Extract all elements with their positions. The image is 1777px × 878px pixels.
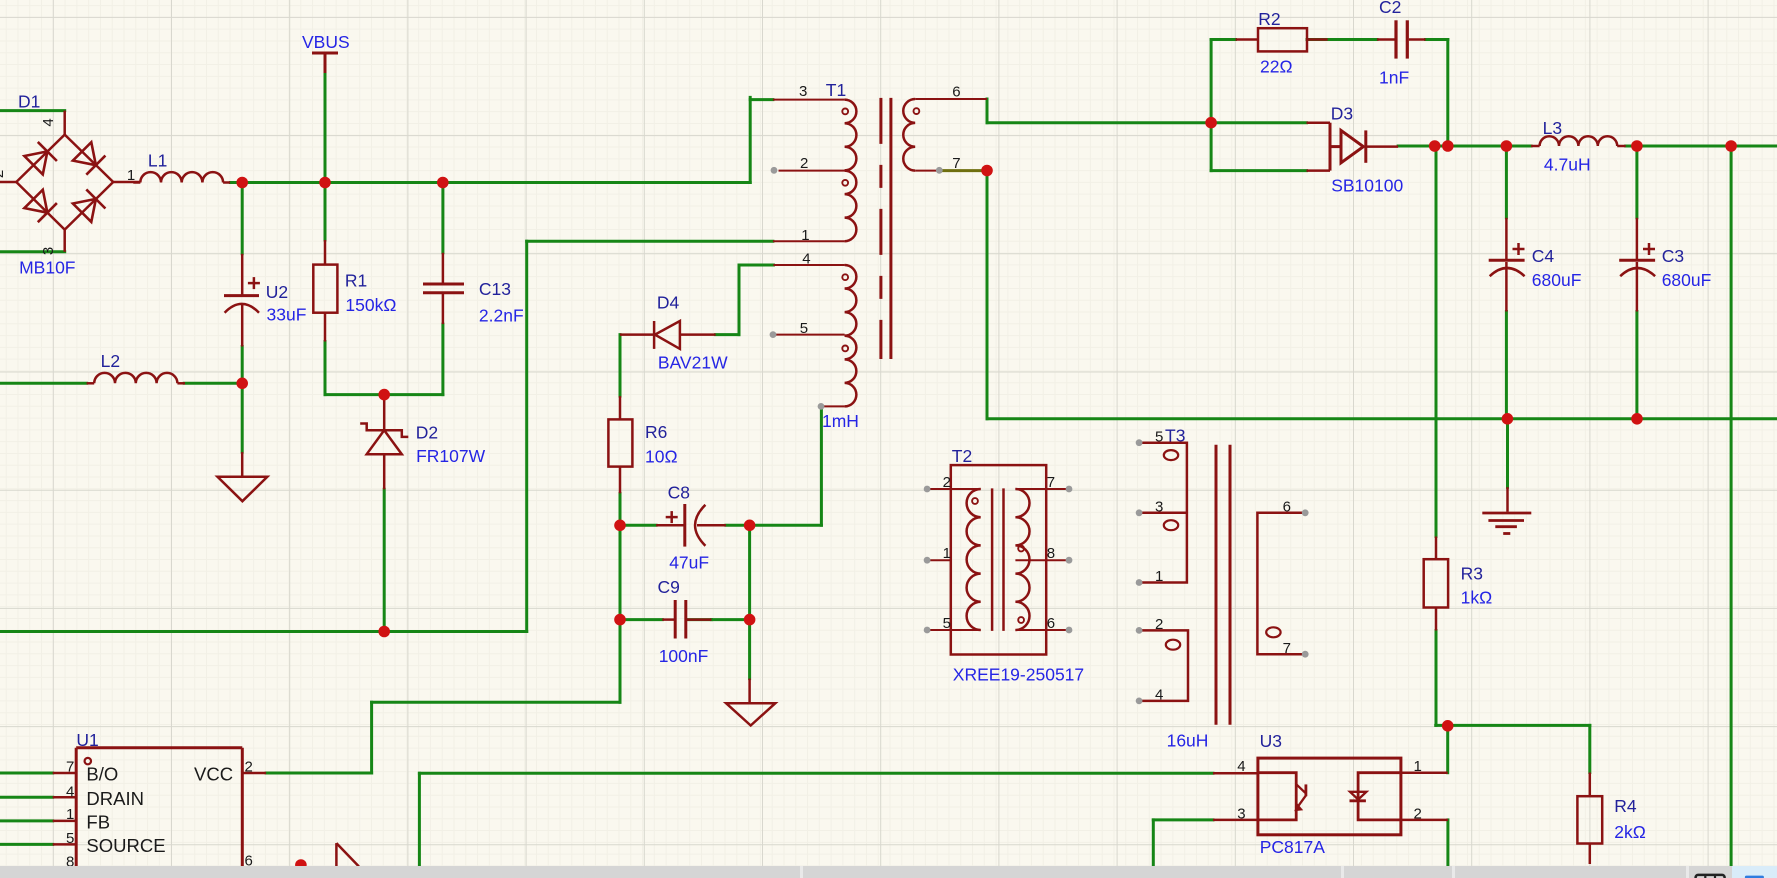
svg-text:L3: L3: [1543, 118, 1562, 138]
svg-text:FR107W: FR107W: [416, 446, 486, 466]
svg-text:2: 2: [245, 758, 253, 775]
svg-text:R1: R1: [345, 270, 367, 290]
svg-text:7: 7: [1047, 474, 1055, 491]
svg-text:3: 3: [1155, 499, 1163, 516]
svg-text:C2: C2: [1379, 0, 1401, 17]
svg-text:100nF: 100nF: [659, 646, 709, 666]
svg-text:1kΩ: 1kΩ: [1461, 588, 1493, 608]
svg-text:SOURCE: SOURCE: [86, 835, 165, 856]
svg-text:BAV21W: BAV21W: [658, 352, 728, 372]
svg-text:680uF: 680uF: [1532, 270, 1582, 290]
svg-text:150kΩ: 150kΩ: [345, 295, 396, 315]
svg-text:1mH: 1mH: [822, 411, 859, 431]
svg-text:2.2nF: 2.2nF: [479, 305, 524, 325]
svg-text:D2: D2: [416, 422, 438, 442]
svg-text:2: 2: [0, 170, 7, 178]
svg-text:FB: FB: [86, 812, 110, 833]
svg-text:C9: C9: [658, 577, 680, 597]
svg-text:3: 3: [799, 83, 807, 100]
svg-text:16uH: 16uH: [1167, 730, 1209, 750]
svg-text:6: 6: [952, 83, 960, 100]
svg-text:D4: D4: [657, 292, 680, 312]
svg-text:5: 5: [800, 320, 808, 337]
svg-text:1: 1: [943, 545, 951, 562]
svg-text:1: 1: [66, 806, 74, 823]
svg-text:3: 3: [1237, 806, 1245, 823]
svg-text:R6: R6: [645, 422, 667, 442]
svg-text:4: 4: [40, 118, 57, 126]
svg-text:680uF: 680uF: [1662, 270, 1712, 290]
svg-text:T3: T3: [1165, 426, 1185, 446]
svg-text:7: 7: [66, 758, 74, 775]
svg-text:R2: R2: [1258, 9, 1280, 29]
svg-text:4.7uH: 4.7uH: [1544, 155, 1591, 175]
svg-text:2: 2: [800, 155, 808, 172]
svg-text:2kΩ: 2kΩ: [1614, 822, 1646, 842]
svg-text:XREE19-250517: XREE19-250517: [953, 665, 1084, 685]
svg-text:4: 4: [66, 783, 74, 800]
svg-text:SB10100: SB10100: [1331, 175, 1403, 195]
svg-text:R4: R4: [1614, 796, 1637, 816]
svg-text:D3: D3: [1331, 103, 1353, 123]
svg-text:1: 1: [801, 227, 809, 244]
svg-text:33uF: 33uF: [267, 305, 307, 325]
svg-text:VBUS: VBUS: [302, 32, 350, 52]
svg-text:C8: C8: [668, 482, 690, 502]
svg-text:6: 6: [1283, 499, 1291, 516]
svg-text:1nF: 1nF: [1379, 68, 1409, 88]
svg-text:2: 2: [943, 474, 951, 491]
svg-text:7: 7: [952, 155, 960, 172]
svg-text:22Ω: 22Ω: [1260, 57, 1293, 77]
svg-text:4: 4: [1237, 758, 1245, 775]
svg-text:1: 1: [127, 167, 135, 184]
svg-text:3: 3: [40, 247, 57, 255]
svg-text:5: 5: [66, 830, 74, 847]
svg-text:4: 4: [1155, 687, 1163, 704]
svg-text:C13: C13: [479, 279, 511, 299]
svg-text:6: 6: [1047, 615, 1055, 632]
svg-text:C3: C3: [1662, 246, 1684, 266]
svg-text:5: 5: [943, 615, 951, 632]
svg-text:8: 8: [1047, 545, 1055, 562]
svg-text:2: 2: [1155, 616, 1163, 633]
svg-text:PC817A: PC817A: [1260, 837, 1326, 857]
svg-text:1: 1: [1155, 568, 1163, 585]
svg-text:DRAIN: DRAIN: [86, 788, 144, 809]
svg-text:1: 1: [1414, 758, 1422, 775]
svg-text:7: 7: [1283, 640, 1291, 657]
svg-text:U1: U1: [76, 730, 98, 750]
svg-text:R3: R3: [1461, 564, 1483, 584]
svg-text:U2: U2: [266, 282, 288, 302]
svg-text:47uF: 47uF: [669, 552, 709, 572]
svg-text:4: 4: [802, 251, 810, 268]
svg-text:MB10F: MB10F: [19, 258, 75, 278]
svg-text:T1: T1: [826, 80, 846, 100]
svg-text:L1: L1: [148, 151, 167, 171]
svg-text:D1: D1: [18, 91, 40, 111]
svg-text:VCC: VCC: [194, 764, 233, 785]
svg-text:T2: T2: [952, 446, 972, 466]
svg-text:10Ω: 10Ω: [645, 446, 678, 466]
svg-text:2: 2: [1414, 806, 1422, 823]
svg-text:B/O: B/O: [86, 764, 118, 785]
svg-text:5: 5: [1155, 429, 1163, 446]
svg-text:L2: L2: [101, 351, 120, 371]
svg-text:U3: U3: [1260, 731, 1282, 751]
svg-text:C4: C4: [1532, 246, 1555, 266]
